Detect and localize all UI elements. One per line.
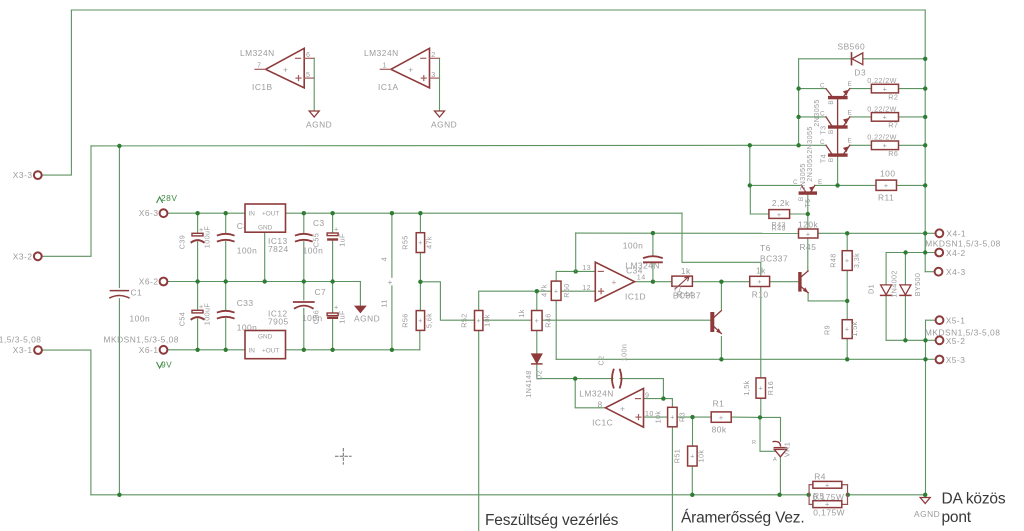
wire X5-3 stub [926,358,936,360]
svg-text:1: 1 [383,61,387,70]
junction border / X4-2 row [923,250,927,254]
svg-text:+: + [283,65,288,75]
resistor R45 120k [799,229,818,238]
transistor T6 BC337 [798,272,801,292]
diode D3 SB560 [851,53,853,65]
junction -9V rail / C54 [195,348,199,352]
svg-text:R1: R1 [713,399,725,409]
svg-text:VR1: VR1 [782,442,791,457]
wire IC1D output row [635,281,672,283]
wire R48 bottom / T6 emitter row [808,300,847,302]
capacitor C3 (1uF polarized) [327,233,338,236]
svg-text:MKDSN1,5/3-5,08: MKDSN1,5/3-5,08 [925,238,1000,248]
svg-text:+: + [554,287,559,296]
wire diode D1 left leg [885,253,887,285]
svg-text:+: + [408,65,413,75]
junction pin12 row / R46 [535,289,539,293]
wire pin9 row [644,398,664,400]
wire bottom border left part [91,494,809,496]
svg-text:100n: 100n [237,246,258,256]
junction T4 base / R11 row [835,183,839,187]
wire X5 bus [925,320,927,495]
ground AGND (bottom right) [920,498,930,504]
svg-text:GND: GND [258,225,273,232]
wire R44 to R10 [692,281,749,283]
svg-text:+: + [845,256,850,265]
svg-text:X5-1: X5-1 [946,315,966,325]
trimmer R44 1k [672,276,693,286]
junction -9V rail / C33 [224,348,228,352]
svg-text:100n: 100n [303,246,324,256]
svg-text:+: + [620,404,625,414]
junction T5 collector / 2,2k [748,183,752,187]
wire C54 [197,282,199,310]
svg-text:SB560: SB560 [838,42,866,52]
wire pin10 row (crosses R3 body) [644,416,712,418]
resistor R3 10k [668,407,678,427]
svg-text:D2: D2 [535,370,544,380]
wire X4-3 stub [925,271,934,273]
svg-text:D3: D3 [854,68,866,78]
svg-text:R: R [752,440,756,446]
svg-text:1uF: 1uF [338,310,347,324]
junction D2-C2 node / IC1C out [573,376,577,380]
svg-text:+: + [534,316,539,325]
wire T7 collector [720,282,722,310]
svg-text:R48: R48 [829,253,838,267]
wire R55-R56 node A [419,253,421,311]
wire T3 collector [799,116,826,118]
junction C34 top [651,231,655,235]
connector X4-1 [936,229,944,237]
wire R45 right to X4-1 [818,232,925,234]
diode D2 1N4148 [532,354,542,363]
wire 2,2k right / T5 base / T6 collector (crosses R45 body) [790,213,808,215]
svg-text:X3-1: X3-1 [13,345,33,355]
resistor R16 1,5k [756,378,766,398]
svg-text:AGND: AGND [306,120,332,130]
svg-text:MKDSN1,5/3-5,08: MKDSN1,5/3-5,08 [0,335,41,345]
resistor R55 47k [416,233,424,253]
svg-text:R3: R3 [678,412,687,422]
svg-text:10k: 10k [697,450,706,463]
svg-text:C34: C34 [626,266,643,276]
resistor R51 10k [688,446,698,466]
svg-text:AGND: AGND [914,509,940,519]
junction main wire / C1 [117,144,121,148]
wire 24V rail right of IC13 [286,212,683,214]
svg-text:0.22/2W: 0.22/2W [867,76,897,85]
svg-text:2: 2 [431,50,435,59]
svg-text:X5-2: X5-2 [946,336,966,346]
junction 28V rail / C39 [195,211,199,215]
regulator IC13 7824 [245,204,286,232]
svg-text:+: + [825,480,830,489]
svg-text:IC1D: IC1D [625,292,646,302]
wire border X4-1 to X4-3 corner [924,233,926,271]
svg-text:+: + [690,452,695,461]
svg-text:R6: R6 [888,149,898,158]
resistor R2 0.22/2W [871,84,898,93]
svg-text:80k: 80k [712,425,727,435]
junction 24V rail / IC1P pin4 [390,211,394,215]
svg-text:10k: 10k [654,411,663,424]
svg-text:+: + [334,225,339,234]
svg-text:B: B [828,158,835,162]
junction diode right leg / X5-2 [903,338,907,342]
svg-text:Áramerősség Vez.: Áramerősség Vez. [681,510,804,527]
junction 24V rail / C3 [330,211,334,215]
wire C2 right to pin9 [620,379,663,399]
svg-text:Feszültség vezérlés: Feszültség vezérlés [485,512,619,529]
wire X5-1 stub [926,319,936,321]
wire pin13 top net (to R45) [575,233,577,272]
svg-text:6: 6 [306,50,310,59]
connector X3-3 [34,171,42,179]
wire R51 bottom [691,466,693,495]
diode D1 right [900,285,911,295]
junction 24V rail / R55 [418,211,422,215]
svg-text:AGND: AGND [354,314,380,324]
junction border / D3 [923,57,927,61]
svg-text:4: 4 [380,257,389,261]
svg-text:2N3055: 2N3055 [798,163,807,191]
svg-text:100n: 100n [130,314,151,324]
crosshair sheet mark [336,449,352,465]
junction X5-2 bus [923,338,927,342]
wire C7 [303,282,305,301]
connector X6-2 [160,278,168,286]
svg-text:+: + [883,84,888,93]
wire C1 upper [118,146,120,288]
connector X3-2 [34,252,42,260]
junction node A [418,280,422,284]
svg-text:GND: GND [258,334,273,341]
svg-text:C: C [820,111,825,118]
capacitor C55 (100n) [296,234,312,242]
wire diode D1 right leg [904,253,906,285]
resistor R11 100 [876,180,897,190]
svg-text:0.22/2W: 0.22/2W [867,104,897,113]
junction border / R11 [923,183,927,187]
wire C3 [332,213,334,232]
junction border / R2 [923,86,927,90]
resistor R1 80k [711,412,731,422]
svg-text:D1: D1 [866,284,875,294]
wire T5 collector drop [749,145,751,185]
connector X6-1 [160,346,168,354]
svg-text:120k: 120k [798,220,818,230]
svg-text:B: B [828,100,835,104]
svg-text:T4: T4 [818,154,827,163]
svg-text:12: 12 [582,283,591,292]
capacitor C1 [110,291,129,298]
svg-text:BC337: BC337 [760,254,788,264]
resistor R10 1k [750,276,770,286]
wire VR1 ref [760,417,776,451]
wire C32 [225,213,227,233]
wire R50 top to pin13 row [556,271,595,281]
svg-text:9: 9 [645,391,649,400]
junction gnd rail / C7 [302,279,306,283]
svg-text:E: E [848,81,852,88]
wire R10 to T6 base [770,281,798,283]
junction border / X4-1 row [923,231,927,235]
junction border / R6 [923,143,927,147]
wire T2 collector [799,88,826,90]
svg-text:R45: R45 [800,242,817,252]
wire C33 [225,282,227,310]
svg-text:+: + [806,229,811,238]
wire C55 [303,213,305,233]
wire R52 bottom long [478,331,480,531]
wire X4-2 row to diodes [886,252,935,254]
wire VR1 anode [779,457,781,495]
junction bus / T3 collector [796,115,800,119]
svg-text:T6: T6 [760,243,771,253]
junction gnd rail / C56 [330,279,334,283]
svg-text:DA közös: DA közös [942,491,1006,508]
svg-text:7905: 7905 [268,317,289,327]
wire R16 bottom [760,398,762,417]
transistor T4 2N3055 [828,153,848,156]
wire -9V rail left [168,349,245,351]
svg-text:+: + [884,181,889,190]
resistor R6 0.22/2W [871,141,898,150]
wire C34 top [652,233,654,256]
capacitor C7 (100n) [294,302,314,308]
svg-text:R16: R16 [766,381,775,395]
svg-text:100: 100 [880,169,895,179]
svg-text:7: 7 [257,61,261,70]
transistor T3 2N3055 [828,125,848,128]
svg-text:+OUT: +OUT [262,348,279,355]
ground AGND (IC1A) [435,111,445,117]
wire R11 to border [897,184,926,186]
junction pin13 row [574,269,578,273]
wire T6 emitter drop [807,293,809,301]
svg-text:1N4002: 1N4002 [890,270,899,298]
wire top border [71,9,925,11]
wire collector bus [798,59,800,146]
wire C34 bottom [652,262,654,281]
wire D3 row [799,58,851,60]
svg-text:IN: IN [249,348,256,355]
svg-text:E: E [848,109,852,116]
resistor R5 0,175W [813,501,842,508]
junction bus / T4 collector [796,143,800,147]
wire 28V rail left [168,212,245,214]
wire R56 bottom to -5V rail [419,330,421,349]
svg-text:IC1B: IC1B [252,82,273,92]
wire T7 emitter [720,337,722,360]
wire R6 to border [899,144,926,146]
ground AGND (middle) [355,306,365,312]
svg-text:1k: 1k [756,266,766,276]
svg-text:BY500: BY500 [913,273,922,297]
svg-text:R55: R55 [401,235,410,249]
svg-text:C54: C54 [178,312,187,326]
junction AGND corner [923,493,927,497]
svg-text:R4: R4 [814,471,826,481]
connector X5-2 [936,336,944,344]
svg-text:+: + [418,316,423,325]
svg-text:LM324N: LM324N [579,388,614,398]
junction bus / T2 collector [796,86,800,90]
svg-text:R50: R50 [562,283,571,297]
wire R2 to border [899,88,926,90]
wire R51 top [692,417,694,446]
svg-text:X3-2: X3-2 [13,251,33,261]
wire right border bus [924,10,926,252]
svg-text:R51: R51 [673,449,682,463]
svg-text:+: + [612,277,617,287]
svg-text:MKDSN1,5/3-5,08: MKDSN1,5/3-5,08 [104,335,179,345]
wire C56 [332,282,334,313]
svg-text:100n: 100n [619,344,628,362]
svg-text:C1: C1 [131,288,143,298]
svg-text:X6-2: X6-2 [139,277,159,287]
svg-text:C: C [820,82,825,89]
transistor T7 BC337 [710,312,714,332]
junction border / R7 [923,115,927,119]
wire T4 collector [799,144,826,146]
connector X5-1 [936,316,944,324]
svg-text:1uF: 1uF [338,233,347,247]
wire D2 to C2 node [537,364,613,378]
junction X5-3 / sense rail [923,357,927,361]
svg-text:C7: C7 [315,287,327,297]
svg-text:100uF: 100uF [203,303,212,326]
svg-text:+OUT: +OUT [262,211,279,218]
svg-text:+: + [719,413,724,422]
svg-text:X4-1: X4-1 [946,229,966,239]
svg-text:3: 3 [431,70,435,79]
svg-text:pont: pont [942,509,972,526]
wire C1 lower [118,299,120,495]
junction X4-2 row / D1 right leg [903,250,907,254]
junction 24V rail / C55 [302,211,306,215]
junction pin9 / R3 [661,396,665,400]
svg-text:E: E [848,138,852,145]
svg-text:R49: R49 [772,224,786,233]
svg-text:LM324N: LM324N [240,48,275,58]
svg-text:+: + [388,277,393,287]
junction R9 / sense rail [845,357,849,361]
svg-text:IN: IN [249,211,256,218]
svg-text:R10: R10 [752,290,769,300]
svg-text:47k: 47k [425,236,434,249]
junction border / shunt left [807,493,811,497]
wire R50 bottom to sense rail [555,300,557,359]
wire 24V drop to R16 (crosses pin13 net and R10 body and sense rail) [682,213,761,378]
wire pin9 to R3 top [663,399,672,408]
wire sense rail (X5-3 net) [556,358,925,360]
transistor T2 2N3055 [828,96,848,99]
resistor R50 47k [551,281,561,300]
resistor R9 1,5k [842,320,852,339]
wire bottom border right part [848,494,925,496]
junction VR1 anode border [777,493,781,497]
junction -5V rail / C56 [330,348,334,352]
svg-text:+: + [757,277,762,286]
svg-text:100n: 100n [623,241,644,251]
wire IC13 gnd pin [264,232,266,281]
connector X4-3 [935,268,943,276]
junction gnd rail / C32 [224,279,228,283]
wire R7 to border [899,116,926,118]
connector X6-3 [160,209,168,217]
wire diodes to X5-2 [886,339,925,341]
wire AGND drop mid [359,282,361,306]
wire X3-1 to bottom border [43,350,91,495]
wire T4 emitter to R6 [850,144,872,146]
svg-text:C: C [820,139,825,146]
svg-text:+: + [758,384,763,393]
svg-text:13: 13 [582,263,591,272]
op-amp IC1B [266,48,305,88]
svg-text:+: + [883,141,888,150]
wire T2 emitter to R2 [850,88,872,90]
transistor T5 2N3055 (driver) [799,191,817,194]
op-amp IC1C [605,388,643,427]
svg-text:IC1C: IC1C [592,418,613,428]
svg-text:9V: 9V [161,360,172,370]
junction R44/R10/T7 collector [719,280,723,284]
svg-text:1k: 1k [681,266,691,276]
svg-text:R46: R46 [544,313,553,327]
svg-text:+: + [777,210,782,219]
connector X3-1 [34,346,42,354]
wire T4 base to emitter row [837,157,839,186]
wire left border to X3-3 [42,10,71,175]
wire IC1P power pin 11 [391,286,393,350]
svg-text:10k: 10k [483,314,492,327]
junction border / shunt right [846,493,850,497]
resistor R56 5,6k [416,311,424,331]
svg-text:R56: R56 [401,313,410,327]
supply -9V [157,363,163,369]
op-amp IC1A [391,48,430,88]
wire T5 emitter row to R11 [815,184,876,186]
svg-text:E: E [818,179,822,186]
connector X5-3 [936,356,944,364]
junction T6 emitter/R48/R9 [845,299,849,303]
svg-text:11: 11 [380,299,389,307]
capacitor C2 (100n) [612,370,622,388]
junction R51 bottom border [690,493,694,497]
svg-text:C3: C3 [313,218,325,228]
regulator IC12 7905 [245,331,286,359]
svg-text:+: + [418,238,423,247]
svg-text:R2: R2 [888,92,898,101]
wire 2,2k left to T5 collector node [750,185,769,214]
svg-text:8: 8 [598,400,603,410]
svg-text:+: + [670,413,675,422]
junction T7 emitter / sense rail [719,357,723,361]
svg-text:IC1A: IC1A [378,82,399,92]
junction gnd rail / C39 [195,279,199,283]
capacitor C56 (1uF polarized) [327,313,338,316]
connector X4-2 [935,249,943,257]
junction main wire / T5 drop [748,143,752,147]
svg-text:+: + [476,316,481,325]
wire R55 top [419,213,421,233]
svg-text:3,3k: 3,3k [852,253,861,268]
svg-text:1,5k: 1,5k [742,380,751,395]
svg-text:X4-3: X4-3 [946,267,966,277]
svg-text:1N4148: 1N4148 [524,370,533,398]
